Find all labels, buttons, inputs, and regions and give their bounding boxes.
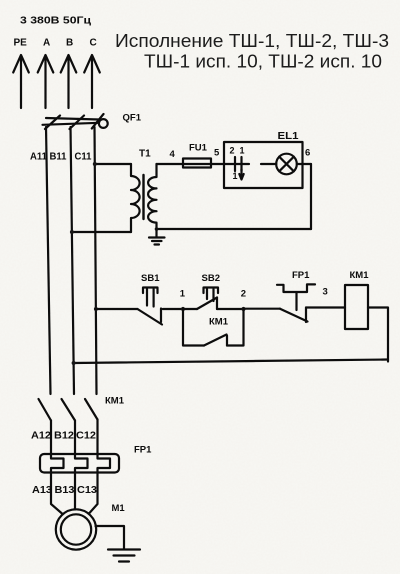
svg-text:ТШ-1 исп. 10, ТШ-2 исп. 10: ТШ-1 исп. 10, ТШ-2 исп. 10 <box>144 51 382 72</box>
wire A to motor <box>51 473 62 514</box>
node junction C / T1 <box>93 162 97 166</box>
node junction C / control feed <box>94 307 98 311</box>
contactor KM1 main contact C <box>85 399 98 420</box>
svg-text:5: 5 <box>214 148 220 159</box>
svg-text:SB1: SB1 <box>141 273 160 284</box>
pushbutton SB1 (NC) <box>138 288 163 325</box>
svg-text:FU1: FU1 <box>189 143 208 154</box>
wire T1 primary bottom to B <box>72 231 131 233</box>
wire 4: T1 secondary to FU1 <box>157 163 184 165</box>
lamp EL1 <box>276 154 297 175</box>
arrow A <box>38 55 54 108</box>
node 1 <box>181 307 185 311</box>
wire C to motor <box>89 473 98 514</box>
svg-text:М1: М1 <box>112 503 126 514</box>
wire FP1 to coil <box>306 306 345 308</box>
svg-text:1: 1 <box>233 171 238 181</box>
transformer T1 core <box>142 175 144 219</box>
svg-text:1: 1 <box>180 289 186 300</box>
svg-text:C: C <box>90 38 97 49</box>
ground at motor <box>108 550 140 562</box>
svg-text:C12: C12 <box>76 431 97 442</box>
svg-text:A13: A13 <box>32 485 53 496</box>
coil KM1 <box>345 285 368 329</box>
fuse FU1 <box>183 159 211 168</box>
contactor KM1 main contact B <box>62 399 76 421</box>
connector contact pins <box>235 157 242 171</box>
svg-text:QF1: QF1 <box>123 113 142 124</box>
transformer T1 secondary winding <box>148 164 156 229</box>
wire A lower <box>50 421 52 455</box>
svg-text:FP1: FP1 <box>292 270 310 281</box>
wire coil to return <box>368 308 388 362</box>
wire control feed <box>96 308 138 310</box>
wire motor to ground <box>96 526 125 549</box>
contactor KM1 main contact A <box>39 399 52 421</box>
arrow B <box>61 55 77 108</box>
wire lamp return bottom <box>157 228 312 230</box>
svg-text:3 380В 50Гц: 3 380В 50Гц <box>20 16 92 27</box>
node 2 <box>241 307 245 311</box>
heater element A <box>51 454 64 473</box>
wire phase B <box>71 127 75 394</box>
svg-text:4: 4 <box>170 149 176 160</box>
svg-text:EL1: EL1 <box>278 131 300 142</box>
svg-text:A12: A12 <box>31 431 52 442</box>
pushbutton SB2 (NO) <box>183 288 244 310</box>
svg-text:1: 1 <box>240 146 245 156</box>
thermal relay FP1 heater block <box>40 454 119 473</box>
svg-text:КМ1: КМ1 <box>350 270 370 281</box>
wire into connector <box>224 163 249 165</box>
heater element C <box>98 454 111 473</box>
svg-text:B: B <box>66 38 73 49</box>
wire SB1 to node 1 <box>163 308 183 310</box>
heater element B <box>75 454 88 473</box>
svg-text:A: A <box>43 38 50 49</box>
wire phase A <box>46 127 51 394</box>
motor M1 <box>56 509 96 549</box>
svg-text:A11: A11 <box>30 152 48 163</box>
wire B lower <box>74 421 76 455</box>
wire phase C <box>95 127 97 394</box>
svg-text:6: 6 <box>305 148 310 159</box>
svg-text:2: 2 <box>241 289 246 300</box>
wire node2 to FP1 <box>244 308 281 310</box>
svg-text:PE: PE <box>14 38 28 49</box>
wire B to motor <box>74 473 76 510</box>
svg-text:B11: B11 <box>50 152 68 163</box>
wire connector to lamp <box>261 163 276 165</box>
thermal contact FP1 <box>277 284 315 322</box>
wire C to T1 primary top <box>95 163 131 165</box>
svg-text:SB2: SB2 <box>202 273 220 284</box>
wire lamp return right side <box>310 164 312 229</box>
wire lamp to return <box>297 163 311 165</box>
arrow C <box>84 55 100 108</box>
svg-text:T1: T1 <box>139 149 151 160</box>
svg-text:B12: B12 <box>54 431 75 442</box>
svg-text:Исполнение ТШ-1, ТШ-2, ТШ-3: Исполнение ТШ-1, ТШ-2, ТШ-3 <box>115 30 389 51</box>
svg-text:C11: C11 <box>75 152 93 163</box>
node junction T1 secondary bottom <box>155 227 159 231</box>
circuit breaker QF1 <box>43 114 108 129</box>
svg-text:3: 3 <box>323 287 328 298</box>
pin arrow down <box>239 169 243 180</box>
svg-text:КМ1: КМ1 <box>209 317 229 328</box>
svg-text:2: 2 <box>230 146 235 156</box>
lamp enclosure box <box>224 142 303 188</box>
transformer T1 primary winding <box>131 164 140 232</box>
node junction B / control return <box>72 361 76 365</box>
node junction B / T1 <box>70 230 74 234</box>
contact KM1 self-holding branch <box>183 309 244 346</box>
ground at T1 <box>149 229 165 245</box>
arrow PE <box>13 55 29 108</box>
wire C lower <box>96 420 98 455</box>
svg-text:КМ1: КМ1 <box>105 396 125 407</box>
svg-text:C13: C13 <box>77 485 98 496</box>
svg-text:B13: B13 <box>55 485 76 496</box>
wire control return <box>74 360 388 364</box>
wire 5: FU1 to connector box <box>211 163 224 165</box>
svg-text:FP1: FP1 <box>134 445 152 456</box>
